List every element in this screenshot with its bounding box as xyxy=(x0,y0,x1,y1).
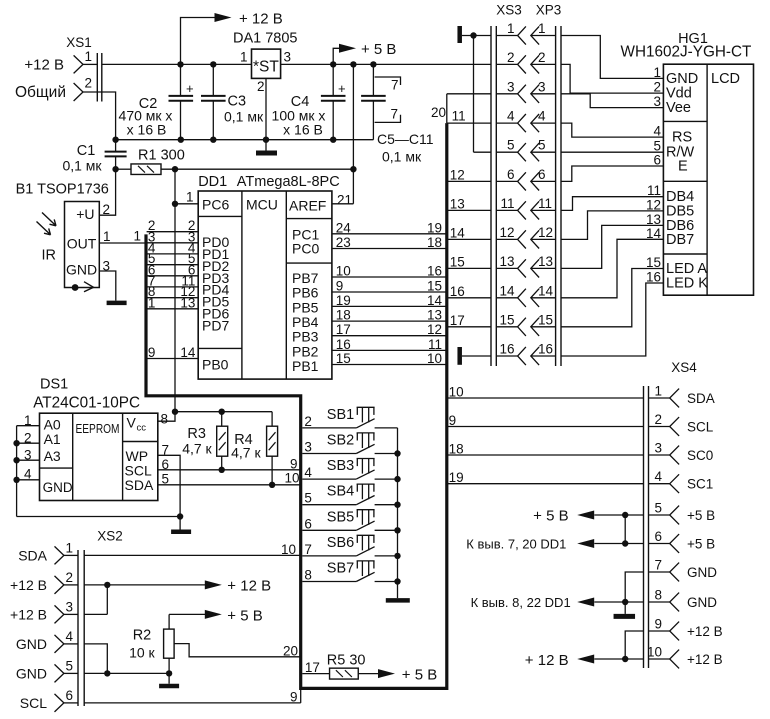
svg-text:5: 5 xyxy=(653,139,661,154)
svg-text:AT24C01-10PC: AT24C01-10PC xyxy=(33,395,140,412)
IR arrows xyxy=(37,213,57,264)
svg-text:2: 2 xyxy=(653,80,661,95)
svg-text:7: 7 xyxy=(390,107,398,122)
svg-text:24: 24 xyxy=(336,220,352,235)
svg-text:SDA: SDA xyxy=(125,477,154,493)
svg-text:2: 2 xyxy=(507,50,515,65)
svg-text:OUT: OUT xyxy=(67,236,97,252)
svg-text:0,1 мк: 0,1 мк xyxy=(224,109,264,125)
wire bus to XS3 (wire 17) xyxy=(447,313,491,328)
svg-text:1: 1 xyxy=(85,49,93,64)
svg-text:11: 11 xyxy=(428,337,442,352)
wire DD1 left pin 2 (bus wire 2) xyxy=(147,218,199,233)
wire bus to XS3 pin3 (wire 20) xyxy=(431,94,491,120)
svg-text:+ 12 В: + 12 В xyxy=(239,11,283,28)
svg-text:PC0: PC0 xyxy=(292,241,319,257)
svg-text:19: 19 xyxy=(449,470,464,485)
ground at R2 xyxy=(168,673,170,683)
svg-text:12: 12 xyxy=(538,225,553,240)
svg-text:9: 9 xyxy=(148,345,156,360)
wire bus to XS4 pin4 SC1 (wire 19) xyxy=(447,470,644,485)
svg-text:12: 12 xyxy=(646,197,661,212)
wire XP3 pin 11 to HG1 pin 11 xyxy=(561,197,663,211)
svg-text:15: 15 xyxy=(538,312,553,327)
svg-text:GND: GND xyxy=(687,565,717,580)
junction R1 / DD1 pin1 branch xyxy=(172,166,178,172)
ground rail under capacitors xyxy=(116,139,374,141)
svg-text:Общий: Общий xyxy=(15,84,66,101)
junction +5V / AREF branch xyxy=(350,61,356,67)
junction XS2 gnd pins xyxy=(104,670,110,676)
svg-text:15: 15 xyxy=(646,255,661,270)
wire DD1 right pin 17 (bus wire 12) xyxy=(332,322,447,337)
svg-text:DD1: DD1 xyxy=(198,174,227,190)
XS4 +5V pins 5-6 tie with arrows xyxy=(466,508,643,552)
connector XS1 xyxy=(15,35,102,102)
wire DS1 pin8 Vcc xyxy=(158,412,175,427)
svg-text:5: 5 xyxy=(654,501,662,516)
svg-text:GND: GND xyxy=(66,262,97,278)
svg-text:PB7: PB7 xyxy=(292,270,319,286)
svg-text:13: 13 xyxy=(499,254,514,269)
svg-text:5: 5 xyxy=(66,658,74,673)
wire bus to XS3 pin4 (wire 11) xyxy=(447,109,491,124)
wire DD1 right pin 19 (bus wire 14) xyxy=(332,293,447,308)
svg-text:0,1 мк: 0,1 мк xyxy=(62,158,102,174)
capacitor C2 470 мк x 16 В xyxy=(119,64,194,139)
svg-text:SC0: SC0 xyxy=(687,448,713,463)
svg-text:5: 5 xyxy=(538,138,546,153)
svg-text:1: 1 xyxy=(240,50,248,65)
wire XS2 pin5 GND to R2 bottom xyxy=(84,672,169,674)
svg-text:3: 3 xyxy=(654,441,662,456)
svg-text:PB6: PB6 xyxy=(292,285,319,301)
ground under DA1 xyxy=(256,151,277,156)
wire XP3 pin 4 to HG1 pin 4 xyxy=(561,123,663,137)
svg-text:К выв. 7, 20 DD1: К выв. 7, 20 DD1 xyxy=(466,537,566,552)
svg-text:15: 15 xyxy=(450,254,465,269)
svg-text:3: 3 xyxy=(507,79,515,94)
svg-text:2: 2 xyxy=(66,570,74,585)
svg-text:15: 15 xyxy=(499,312,514,327)
svg-text:DA1 7805: DA1 7805 xyxy=(233,31,298,47)
wire R1 to +5V branch xyxy=(161,168,353,170)
wire XP3 pin 1 to HG1 pin 1 xyxy=(561,36,663,79)
svg-text:GND: GND xyxy=(43,480,73,495)
keys common rail xyxy=(397,428,399,598)
ground under B1 xyxy=(107,301,127,306)
wire DD1 left pin 12 (bus wire 8) xyxy=(147,284,199,299)
bus lead-in at XS3 side xyxy=(446,94,448,123)
wire R2 wiper to bus (wire 20) xyxy=(174,644,301,659)
svg-text:9: 9 xyxy=(336,279,344,294)
svg-text:DB7: DB7 xyxy=(666,232,694,248)
svg-text:1: 1 xyxy=(66,540,74,555)
svg-text:10: 10 xyxy=(449,385,464,400)
junction SB5 / common rail xyxy=(394,527,400,533)
junction R2 bottom xyxy=(166,670,172,676)
svg-text:8: 8 xyxy=(654,588,662,603)
svg-text:WH1602J-YGH-CT: WH1602J-YGH-CT xyxy=(621,44,752,61)
svg-text:PB3: PB3 xyxy=(292,329,319,345)
svg-text:PB1: PB1 xyxy=(292,358,319,374)
svg-text:9: 9 xyxy=(290,690,298,705)
svg-text:7: 7 xyxy=(391,77,399,92)
svg-text:XS2: XS2 xyxy=(97,529,123,544)
push button SB5 (bus wire 6) xyxy=(302,509,397,531)
svg-text:5: 5 xyxy=(507,138,515,153)
svg-text:8: 8 xyxy=(304,568,312,583)
bus bottom stub to SCL wire xyxy=(300,688,302,703)
svg-text:17: 17 xyxy=(305,660,320,675)
svg-text:A1: A1 xyxy=(44,431,61,447)
svg-text:10: 10 xyxy=(284,470,299,485)
wire DD1 left pin 14 (bus wire 9) xyxy=(147,345,199,360)
svg-text:9: 9 xyxy=(290,457,298,472)
wire bus to XS4 pin2 SCL (wire 9) xyxy=(447,413,644,428)
svg-text:14: 14 xyxy=(180,345,196,360)
svg-text:1: 1 xyxy=(507,21,515,36)
wire XP3 pin 6 to HG1 pin 6 xyxy=(561,166,663,181)
contact pair XS3/XP3 pin 4 xyxy=(496,109,555,133)
junction +5V / C5 xyxy=(370,61,376,67)
svg-text:XS3: XS3 xyxy=(496,3,522,18)
connector pair XS3 XP3 xyxy=(491,3,561,367)
contact pair XS3/XP3 pin 2 xyxy=(496,50,555,74)
svg-text:+ 12 В: + 12 В xyxy=(525,652,569,669)
IR receiver B1 TSOP1736 xyxy=(16,182,111,288)
wire B1 GND to ground xyxy=(99,271,116,301)
svg-text:2: 2 xyxy=(85,76,93,91)
XS4 GND pins 7-8 tie with arrow and ground xyxy=(471,572,644,616)
svg-text:+12 В: +12 В xyxy=(687,652,723,667)
capacitor C1 0,1 мк xyxy=(62,140,126,174)
svg-text:10 к: 10 к xyxy=(129,645,155,661)
wire DD1 left pin 11 (bus wire 7) xyxy=(147,273,199,288)
junction Vcc / R3R4 feed xyxy=(172,409,178,415)
contact pair XS3/XP3 pin 13 xyxy=(496,254,555,278)
wire Vcc node to R3 R4 xyxy=(175,411,272,413)
svg-text:+ 5 В: + 5 В xyxy=(227,608,262,625)
svg-text:18: 18 xyxy=(449,442,464,457)
svg-text:SB7: SB7 xyxy=(327,561,354,577)
contact pair XS3/XP3 pin 3 xyxy=(496,79,555,103)
resistor R4 4,7 к xyxy=(231,412,278,485)
svg-text:21: 21 xyxy=(337,193,352,208)
svg-text:14: 14 xyxy=(499,283,515,298)
wire XP3 pin 12 to HG1 pin 12 xyxy=(561,211,663,240)
wire XS2 pin6 SCL to bus (wire 9) xyxy=(84,690,301,705)
svg-text:10: 10 xyxy=(647,645,662,660)
junction C3 / +12V xyxy=(210,61,216,67)
svg-text:DS1: DS1 xyxy=(40,377,68,393)
junction R3 / SCL xyxy=(219,467,225,473)
svg-text:6: 6 xyxy=(507,167,515,182)
wire XP3 pin 15 to HG1 pin 15 xyxy=(561,269,663,327)
wire bus to XS4 pin3 SC0 (wire 18) xyxy=(447,442,644,457)
svg-text:+5 В: +5 В xyxy=(687,537,715,552)
wire B1 +U to R1/C1 node xyxy=(99,169,115,215)
svg-text:GND: GND xyxy=(687,595,717,610)
svg-text:3: 3 xyxy=(66,599,74,614)
svg-text:XS1: XS1 xyxy=(66,35,92,50)
wire XS2 pin4 GND xyxy=(84,644,107,674)
svg-text:4: 4 xyxy=(66,629,74,644)
svg-text:SB2: SB2 xyxy=(327,433,354,449)
svg-text:SB6: SB6 xyxy=(327,535,354,551)
svg-text:4: 4 xyxy=(654,469,662,484)
wire XP3 pin 3 to HG1 pin 3 xyxy=(561,94,663,108)
wire XS2 pin3 +12V xyxy=(84,613,107,615)
svg-text:B1 TSOP1736: B1 TSOP1736 xyxy=(16,182,109,198)
junction R4 / SDA xyxy=(269,482,275,488)
wire XP3 pin 5 to HG1 pin 5 xyxy=(561,151,663,153)
svg-text:3: 3 xyxy=(304,440,312,455)
svg-text:+ 5 В: + 5 В xyxy=(361,41,396,58)
svg-text:2: 2 xyxy=(257,79,265,94)
junction DS1 ground xyxy=(177,513,183,519)
push button SB4 (bus wire 5) xyxy=(302,484,397,506)
shield bar at XS3 pin1 xyxy=(460,26,491,152)
XS4 +12V pins 9-10 tie with arrow xyxy=(525,631,644,669)
svg-text:PC6: PC6 xyxy=(202,197,229,213)
push button SB2 (bus wire 3) xyxy=(302,433,397,455)
svg-text:23: 23 xyxy=(336,235,351,250)
wire DD1 left pin 13 (bus wire 1) xyxy=(147,295,199,310)
junction C1/R1/B1 node xyxy=(112,166,118,172)
wire DD1 left pin 6 (bus wire 6) xyxy=(147,262,199,277)
DD1 port D pin names xyxy=(202,234,229,373)
svg-text:16: 16 xyxy=(499,342,514,357)
svg-text:2: 2 xyxy=(538,50,546,65)
wire B1 OUT to bus xyxy=(99,242,145,244)
svg-text:6: 6 xyxy=(653,153,661,168)
contact pair XS3/XP3 pin 15 xyxy=(496,312,555,336)
wire XP3 pin 16 to HG1 pin 16 xyxy=(561,283,663,356)
ground under DS1 xyxy=(171,530,191,535)
svg-text:1: 1 xyxy=(538,21,546,36)
svg-text:+12 В: +12 В xyxy=(10,577,47,593)
shield bar at XS3 pin16 xyxy=(460,347,491,365)
svg-text:1: 1 xyxy=(186,190,194,205)
svg-text:IR: IR xyxy=(42,248,57,264)
wire XS2 pin2 +12V with arrow xyxy=(84,578,271,615)
resistor R1 300 xyxy=(131,148,185,175)
wire C1 node to R1 xyxy=(116,168,131,170)
B1 photodiode direction mark xyxy=(72,282,94,292)
svg-text:7: 7 xyxy=(304,542,312,557)
power arrow +12 V xyxy=(181,11,283,65)
junction R1 wire / AREF vertical xyxy=(350,166,356,172)
svg-text:7: 7 xyxy=(654,558,662,573)
svg-text:C3: C3 xyxy=(228,94,247,110)
svg-text:PB4: PB4 xyxy=(292,314,319,330)
svg-text:SDA: SDA xyxy=(18,547,47,563)
svg-text:+12 В: +12 В xyxy=(24,57,64,74)
svg-text:16: 16 xyxy=(646,270,661,285)
LCD module HG1 WH1602J-YGH-CT xyxy=(621,31,754,295)
junction C3 / ground rail xyxy=(210,137,216,143)
wire XP3 pin 13 to HG1 pin 13 xyxy=(561,225,663,268)
svg-text:0,1 мк: 0,1 мк xyxy=(382,149,422,165)
svg-text:V: V xyxy=(127,415,137,431)
svg-text:GND: GND xyxy=(16,636,47,652)
wire XS2 pin1 SDA to bus (wire 10) xyxy=(84,542,301,557)
svg-text:SB4: SB4 xyxy=(327,484,354,500)
svg-text:SCL: SCL xyxy=(687,420,714,435)
wire DD1 pin1 PC6 xyxy=(175,203,198,205)
svg-text:SDA: SDA xyxy=(687,391,715,406)
svg-text:4,7 к: 4,7 к xyxy=(231,444,261,460)
connector XS4 xyxy=(644,360,723,668)
svg-text:19: 19 xyxy=(336,293,351,308)
svg-text:2: 2 xyxy=(654,412,662,427)
DS1 left pins tie-down xyxy=(13,413,180,517)
svg-text:+: + xyxy=(338,81,346,96)
svg-text:+U: +U xyxy=(76,206,94,222)
wire bus to XS3 (wire 14) xyxy=(447,225,491,240)
svg-text:14: 14 xyxy=(538,283,554,298)
push button SB6 (bus wire 7) xyxy=(302,535,397,557)
svg-text:11: 11 xyxy=(538,196,552,211)
svg-text:PB0: PB0 xyxy=(202,357,229,373)
svg-text:20: 20 xyxy=(431,105,446,120)
svg-text:9: 9 xyxy=(449,413,457,428)
svg-text:cc: cc xyxy=(137,423,147,434)
voltage regulator DA1 7805 xyxy=(233,31,298,95)
svg-text:18: 18 xyxy=(427,235,442,250)
svg-text:LED K: LED K xyxy=(666,276,708,292)
contact pair XS3/XP3 pin 5 xyxy=(496,138,555,162)
svg-text:1: 1 xyxy=(148,295,156,310)
junction +5V / C4 xyxy=(330,61,336,67)
junction SB7 / common rail xyxy=(394,578,400,584)
svg-text:6: 6 xyxy=(304,516,312,531)
svg-text:SC1: SC1 xyxy=(687,477,713,492)
svg-text:16: 16 xyxy=(450,284,465,299)
svg-text:+: + xyxy=(186,81,194,96)
svg-text:SB3: SB3 xyxy=(327,458,354,474)
svg-text:+12 В: +12 В xyxy=(687,624,723,639)
connector XS2 xyxy=(10,529,123,712)
svg-text:3: 3 xyxy=(284,50,292,65)
svg-text:16: 16 xyxy=(538,342,553,357)
svg-text:18: 18 xyxy=(336,308,351,323)
svg-text:13: 13 xyxy=(180,295,195,310)
wire bus to XS4 pin1 SDA (wire 10) xyxy=(447,385,644,400)
svg-text:3: 3 xyxy=(653,94,661,109)
junction C4 / ground rail xyxy=(330,137,336,143)
svg-text:х 16 В: х 16 В xyxy=(127,122,167,138)
wire DD1 right pin 15 (bus wire 10) xyxy=(332,351,447,366)
svg-text:13: 13 xyxy=(450,196,465,211)
resistor R5 30 with +5V arrow (wire 17) xyxy=(302,653,437,684)
svg-text:SCL: SCL xyxy=(20,695,47,711)
microcontroller DD1 ATmega8L-8PC xyxy=(198,174,339,379)
svg-text:GND: GND xyxy=(666,71,698,87)
wire bus to XS3 (wire 12) xyxy=(447,167,491,182)
power arrow +5 V (at DA1 output) xyxy=(333,41,396,64)
junction DA1 gnd / rail xyxy=(263,137,269,143)
junction R3 top xyxy=(219,409,225,415)
wire XP3 pin 2 to HG1 pin 2 xyxy=(561,64,663,93)
svg-text:16: 16 xyxy=(427,264,442,279)
wire bus to XS3 (wire 15) xyxy=(447,254,491,269)
svg-text:+ 12 В: + 12 В xyxy=(227,578,271,595)
junction ground rail / C1 branch xyxy=(112,137,118,143)
svg-text:R1 300: R1 300 xyxy=(138,148,185,164)
wire DD1 left pin 3 (bus wire 3) xyxy=(147,229,199,244)
svg-text:4: 4 xyxy=(507,109,515,124)
resistor R3 4,7 к xyxy=(182,412,228,470)
svg-text:6: 6 xyxy=(66,688,74,703)
wire DD1 right pin 16 (bus wire 11) xyxy=(332,337,447,352)
svg-text:AREF: AREF xyxy=(289,198,326,214)
contact pair XS3/XP3 pin 14 xyxy=(496,283,555,307)
svg-text:14: 14 xyxy=(646,226,662,241)
svg-text:4: 4 xyxy=(538,109,546,124)
svg-text:SB5: SB5 xyxy=(327,509,354,525)
wire DD1 left pin 4 (bus wire 4) xyxy=(147,240,199,255)
svg-text:+ 5 В: + 5 В xyxy=(402,667,437,684)
svg-text:х 16 В: х 16 В xyxy=(283,122,323,138)
svg-text:13: 13 xyxy=(538,254,553,269)
junction SB6 / common rail xyxy=(394,553,400,559)
svg-text:EEPROM: EEPROM xyxy=(76,421,120,436)
capacitors C5-C11 0,1 мк xyxy=(361,64,434,164)
svg-text:PD7: PD7 xyxy=(202,318,229,334)
svg-text:XP3: XP3 xyxy=(536,3,562,18)
svg-text:20: 20 xyxy=(283,644,298,659)
wire DS1 pin6 SCL to bus (wire 9) xyxy=(158,457,301,473)
svg-text:XS4: XS4 xyxy=(671,360,697,375)
wire vertical R1 node to DS1 Vcc xyxy=(174,169,176,412)
capacitor C4 100 мк x 16 В xyxy=(272,64,346,139)
svg-text:SB1: SB1 xyxy=(327,407,354,423)
svg-text:19: 19 xyxy=(427,220,442,235)
wire WP ground vertical xyxy=(179,517,181,530)
contact pair XS3/XP3 pin 6 xyxy=(496,167,555,191)
wire DS1 pin5 SDA to bus (wire 10) xyxy=(158,470,301,486)
junction SB2 / common rail xyxy=(394,450,400,456)
svg-text:2: 2 xyxy=(304,414,312,429)
svg-text:PB5: PB5 xyxy=(292,299,319,315)
wire DD1 right pin 18 (bus wire 13) xyxy=(332,308,447,323)
contact pair XS3/XP3 pin 1 xyxy=(496,21,555,45)
svg-text:К выв. 8, 22 DD1: К выв. 8, 22 DD1 xyxy=(471,595,571,610)
svg-text:*ST: *ST xyxy=(253,59,279,76)
svg-text:12: 12 xyxy=(499,225,514,240)
svg-text:16: 16 xyxy=(336,337,351,352)
wire XS1 pin2 to ground rail xyxy=(102,92,116,140)
push button SB1 (bus wire 2) xyxy=(302,407,397,429)
wire DD1 right pin 23 (bus wire 18) xyxy=(332,235,447,250)
junction SB4 / common rail xyxy=(394,502,400,508)
contact pair XS3/XP3 pin 11 xyxy=(496,196,555,220)
svg-text:10: 10 xyxy=(427,351,442,366)
wire bundle (thick bus line) xyxy=(146,123,447,688)
wire DD1 right pin 9 (bus wire 15) xyxy=(332,279,447,294)
svg-text:4: 4 xyxy=(304,465,312,480)
wire DD1 left pin 5 (bus wire 5) xyxy=(147,251,199,266)
wire DA1 pin3 +5V rail to XS3 pin2 xyxy=(281,63,491,65)
wire DS1 pin7 WP to ground xyxy=(158,443,180,517)
trimmer R2 10 к xyxy=(129,614,174,673)
EEPROM DS1 AT24C01-10PC xyxy=(33,377,158,501)
svg-text:10: 10 xyxy=(281,542,296,557)
svg-text:13: 13 xyxy=(646,212,661,227)
svg-text:1: 1 xyxy=(654,384,662,399)
